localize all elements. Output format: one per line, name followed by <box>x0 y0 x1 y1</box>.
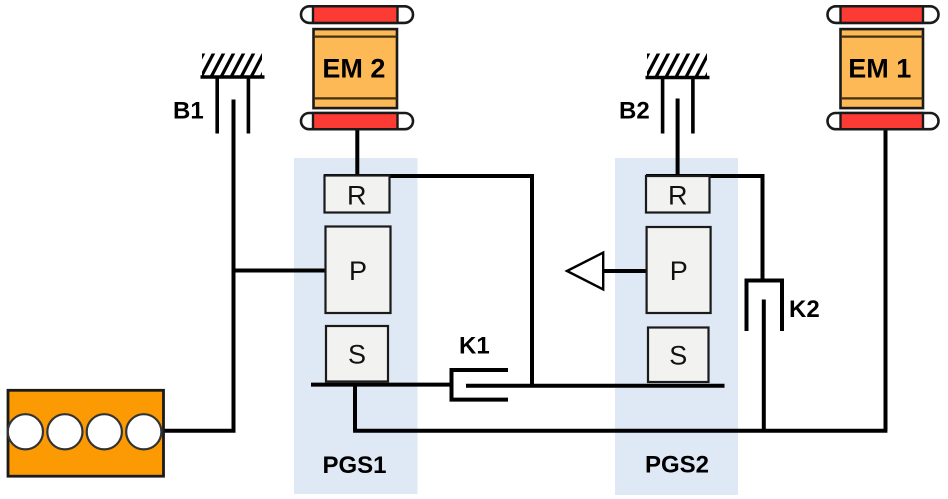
svg-text:K1: K1 <box>459 333 490 360</box>
clutch K2 middle plate down to bottom bus <box>762 300 766 431</box>
engine cylinder 4 <box>126 414 161 449</box>
brake B2 caliper right finger <box>691 79 695 134</box>
electric machine EM2 top end cap (stadium) <box>301 6 413 23</box>
brake B1 hatched ground block <box>190 52 275 80</box>
wire: ring gear R PGS1 top bus to K1 drop <box>324 174 532 178</box>
svg-text:B2: B2 <box>619 98 650 125</box>
electric machine EM2 bottom end cap (stadium) <box>301 113 413 129</box>
clutch K2 outer bracket (open down) <box>747 281 783 332</box>
svg-text:PGS1: PGS1 <box>323 452 387 479</box>
EM1 top winding (red) <box>841 6 924 23</box>
wire: EM2 shaft down to ring gear R of PGS1 <box>355 129 359 177</box>
svg-text:R: R <box>668 181 688 211</box>
svg-text:EM 2: EM 2 <box>322 53 385 83</box>
svg-text:PGS2: PGS2 <box>645 452 709 479</box>
engine cylinder 2 <box>47 414 82 449</box>
svg-text:P: P <box>670 256 688 286</box>
EM2 upper lamination line <box>315 35 397 37</box>
engine block (ICE) <box>8 390 164 476</box>
EM2 top winding (red) <box>313 6 398 23</box>
wire: vertical drop from R PGS1 bus down to K1 right plate <box>530 174 534 386</box>
wire: B2 shaft down to ring gear R PGS2 <box>676 99 680 179</box>
EM1 upper lamination line <box>842 35 923 37</box>
svg-text:K2: K2 <box>789 296 820 323</box>
brake B1 caliper left finger <box>215 78 219 134</box>
svg-text:R: R <box>347 181 367 211</box>
EM1 bottom winding (red) <box>841 113 924 129</box>
output arrow head (hollow, pointing left) <box>567 253 603 290</box>
svg-text:S: S <box>348 340 366 370</box>
wire: carrier P PGS1 feed from B1/engine shaft <box>234 269 328 273</box>
EM1 lower lamination line <box>842 97 923 99</box>
wire: ring gear R PGS2 top bus to K2 <box>646 176 763 281</box>
ring gear R box PGS1 <box>325 176 390 213</box>
EM2 lower lamination line <box>315 97 397 99</box>
wire: sun S PGS1 shaft to K1 left plate <box>311 383 450 387</box>
svg-text:S: S <box>669 340 687 370</box>
PGS1 shaded column band <box>294 158 418 494</box>
wire: EM1 shaft down to bottom bus <box>884 129 888 431</box>
brake B2 caliper left finger <box>661 79 665 134</box>
svg-text:EM 1: EM 1 <box>848 53 911 83</box>
EM2 bottom winding (red) <box>313 113 398 129</box>
clutch K1 middle plate bar <box>466 384 725 388</box>
carrier P box PGS1 <box>326 227 391 314</box>
sun gear S box PGS2 <box>648 328 709 383</box>
electric machine EM1 bottom end cap (stadium) <box>828 113 939 129</box>
wire: bottom bus from S PGS1 to EM1 <box>353 429 887 433</box>
wire: drop from S PGS1 shaft down to bottom bus <box>353 385 357 431</box>
PGS2 shaded column band <box>615 158 738 495</box>
svg-text:B1: B1 <box>173 98 204 125</box>
engine cylinder 1 <box>8 414 43 449</box>
EM1 stator body (orange) <box>841 29 924 108</box>
engine cylinder 3 <box>87 414 122 449</box>
brake B2 hatched ground block <box>635 52 720 80</box>
wire: B1 shaft vertical + engine output corner <box>164 100 234 431</box>
brake B1 caliper right finger <box>247 78 251 134</box>
electric machine EM1 top end cap (stadium) <box>828 6 939 23</box>
svg-text:P: P <box>349 256 367 286</box>
ring gear R box PGS2 <box>646 176 710 213</box>
clutch K1 outer bracket (open right) <box>452 370 509 400</box>
carrier P box PGS2 <box>647 227 711 313</box>
EM2 stator body (orange) <box>314 29 398 108</box>
sun gear S box PGS1 <box>326 326 388 382</box>
wire: output arrow line from carrier P PGS2 <box>602 269 647 273</box>
